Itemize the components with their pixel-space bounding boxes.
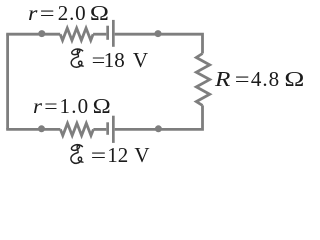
label: = 18 V (EMF value of top battery): [92, 48, 148, 72]
svg-text:r: r: [33, 94, 42, 118]
battery B1 (18 V) long plate: [112, 20, 115, 47]
svg-text:Ω: Ω: [284, 69, 304, 92]
label: = 12 V (EMF value of bottom battery): [91, 143, 150, 167]
svg-text:4.8: 4.8: [251, 67, 280, 91]
battery B2 (12 V) short plate: [106, 122, 109, 135]
svg-text:1.0: 1.0: [60, 94, 90, 118]
wire: left vertical: [6, 34, 9, 129]
node dot: top right junction: [155, 30, 162, 37]
label: script-E EMF symbol for 12 V battery: [71, 145, 84, 164]
node dot: bottom right junction: [155, 125, 162, 132]
svg-text:V: V: [134, 143, 149, 167]
svg-text:12: 12: [107, 143, 128, 167]
svg-text:Ω: Ω: [90, 2, 109, 25]
resistor R (4.8 ohm) vertical zigzag: [196, 54, 209, 106]
wire: top-right horizontal and corner down to R: [115, 34, 203, 53]
resistor r1 (2.0 ohm) zigzag: [60, 28, 93, 40]
label: script-E EMF symbol for 18 V battery: [71, 49, 84, 67]
label: R = 4.8 ohm (load resistor): [214, 67, 304, 91]
battery B2 (12 V) long plate: [112, 116, 115, 143]
label: r = 1.0 ohm (internal resistance of bottom battery): [33, 94, 111, 118]
label: r = 2.0 ohm (internal resistance of top battery): [28, 1, 109, 25]
wire: top-left horizontal: [6, 33, 60, 36]
svg-text:V: V: [133, 48, 148, 72]
wire: between battery B2 and r2: [93, 128, 106, 131]
svg-text:2.0: 2.0: [58, 1, 87, 25]
svg-text:=: =: [44, 94, 57, 117]
node dot: bottom left junction: [38, 125, 45, 132]
wire: between r1 and battery B1: [93, 33, 106, 36]
svg-text:=: =: [40, 2, 55, 25]
svg-text:R: R: [214, 68, 230, 92]
wire: bottom-left horizontal: [6, 128, 60, 131]
resistor r2 (1.0 ohm) zigzag: [60, 123, 93, 135]
svg-text:=: =: [91, 144, 106, 167]
battery B1 (18 V) short plate: [106, 26, 109, 40]
svg-text:Ω: Ω: [93, 95, 111, 118]
svg-text:18: 18: [104, 48, 125, 72]
wire: right vertical below R, bottom-right corner, bottom to battery B2: [115, 105, 203, 129]
svg-text:=: =: [235, 68, 250, 91]
node dot: top left junction: [38, 30, 45, 37]
svg-text:r: r: [28, 1, 38, 24]
